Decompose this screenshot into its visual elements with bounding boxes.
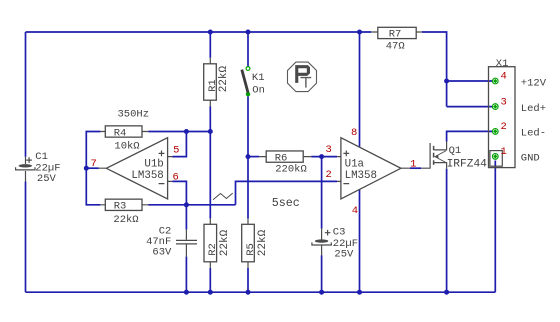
svg-text:7: 7 [91, 158, 97, 170]
svg-text:GND: GND [521, 153, 540, 165]
svg-text:22kΩ: 22kΩ [219, 229, 231, 256]
wire C3 bottom [321, 255, 323, 292]
svg-text:8: 8 [351, 127, 357, 139]
wire R2 bottom [209, 268, 211, 292]
wire C1 to bottom rail [25, 182, 27, 293]
resistor R5 [242, 219, 269, 268]
svg-text:22kΩ: 22kΩ [113, 214, 138, 226]
svg-text:C3: C3 [333, 227, 346, 239]
wire U1a pin8 [359, 32, 361, 147]
wire R7 to X1 corner [422, 32, 447, 107]
svg-text:X1: X1 [496, 58, 509, 70]
label Led- [521, 128, 546, 140]
pin 4 label [352, 205, 358, 217]
pin number X1-3 [501, 96, 507, 108]
svg-text:LM358: LM358 [345, 170, 377, 182]
label 5sec [272, 196, 300, 210]
resistor R1 [204, 58, 230, 106]
node K1 R6 [246, 154, 251, 159]
resistor R7 [371, 27, 422, 52]
svg-text:U1b: U1b [144, 158, 163, 170]
svg-text:1: 1 [501, 146, 507, 158]
svg-text:On: On [252, 84, 265, 96]
svg-text:25V: 25V [334, 249, 354, 261]
svg-text:63V: 63V [152, 246, 172, 258]
node rail R5 [246, 290, 251, 295]
svg-text:6: 6 [172, 171, 178, 183]
sawtooth icon [213, 193, 233, 200]
node top rail pin8 [357, 30, 362, 35]
resistor R2 [204, 219, 231, 268]
pin 5 label [173, 144, 179, 156]
svg-text:4: 4 [501, 71, 507, 83]
pin number X1-1 [501, 146, 507, 158]
svg-text:47Ω: 47Ω [386, 41, 405, 53]
node R6 C3 [319, 154, 324, 159]
svg-text:2: 2 [501, 121, 507, 133]
resistor R3 [100, 199, 148, 226]
wire GND down [494, 161, 496, 293]
pad X1-1 [492, 154, 498, 160]
pin 2 label [326, 169, 332, 181]
pad X1-3 [492, 104, 498, 110]
wire bottom rail [26, 291, 496, 293]
node +12V [444, 79, 449, 84]
svg-text:U1a: U1a [345, 158, 365, 170]
resistor R6 [259, 151, 311, 175]
wire R6 left [248, 156, 259, 158]
node U1b out [84, 166, 89, 171]
svg-text:R3: R3 [114, 201, 127, 213]
svg-text:5sec: 5sec [272, 196, 300, 210]
svg-text:3: 3 [326, 144, 332, 156]
svg-text:C1: C1 [35, 151, 48, 163]
svg-text:R2: R2 [207, 243, 219, 256]
wire R4 right [148, 131, 210, 133]
node rail Q1 [444, 290, 449, 295]
pin number X1-4 [501, 71, 507, 83]
wire R5 bottom [247, 268, 249, 292]
wire R3 right [148, 204, 235, 206]
resistor R4 [100, 126, 148, 153]
wire K1 top [247, 32, 249, 67]
svg-text:R7: R7 [389, 29, 402, 41]
wire U1a out to Q1 gate [410, 167, 421, 169]
node rail C2 [184, 290, 189, 295]
svg-text:IRFZ44: IRFZ44 [447, 158, 488, 170]
svg-text:R5: R5 [245, 243, 257, 256]
node rail pin4 [357, 290, 362, 295]
pad X1-4 [492, 78, 498, 84]
svg-text:Led+: Led+ [521, 103, 546, 115]
node rail C3 [319, 290, 324, 295]
svg-text:2: 2 [326, 169, 332, 181]
switch K1 [242, 67, 265, 97]
svg-text:K1: K1 [252, 72, 265, 84]
connector X1 [489, 58, 516, 168]
svg-text:3: 3 [501, 96, 507, 108]
svg-text:25V: 25V [37, 173, 57, 185]
wire top rail [26, 31, 372, 33]
node R3 C2 [184, 202, 189, 207]
wire pin6 [173, 181, 187, 204]
wire U1b out to R3 left [86, 168, 100, 205]
wire C2 top [185, 205, 187, 230]
svg-text:22kΩ: 22kΩ [218, 65, 230, 92]
pin number X1-2 [501, 121, 507, 133]
node rail R2 [208, 290, 213, 295]
wire U1a pin4 [359, 190, 361, 293]
svg-text:Q1: Q1 [449, 145, 462, 157]
pin 3 label [326, 144, 332, 156]
capacitor C1 [16, 151, 61, 185]
svg-text:4: 4 [352, 205, 358, 217]
wire C3 top [321, 157, 323, 229]
svg-text:LM358: LM358 [131, 170, 163, 182]
pin 1 label [410, 159, 416, 171]
wire R1 bottom [209, 106, 211, 131]
label Led+ [521, 103, 546, 115]
wire +12V branch [447, 80, 492, 82]
svg-text:10kΩ: 10kΩ [114, 141, 139, 153]
capacitor C3 [312, 227, 358, 261]
pad X1-2 [492, 129, 498, 135]
node top rail K1 [246, 30, 251, 35]
wire Led- to Q1 drain [447, 131, 492, 141]
svg-text:220kΩ: 220kΩ [275, 163, 307, 175]
svg-text:22kΩ: 22kΩ [257, 229, 269, 256]
svg-text:Led-: Led- [521, 128, 546, 140]
wire U1b out to R4 left [86, 132, 100, 169]
wire left rail to C1 [25, 32, 27, 157]
wire R1 top [209, 32, 211, 58]
op-amp U1b [99, 138, 173, 199]
wire R6 right to pin3 [311, 156, 337, 158]
op-amp U1a [337, 138, 410, 199]
svg-text:5: 5 [173, 144, 179, 156]
svg-text:R4: R4 [114, 127, 127, 139]
svg-text:350Hz: 350Hz [118, 109, 150, 121]
svg-text:+12V: +12V [521, 77, 547, 89]
wire U1b output [86, 167, 99, 169]
capacitor C2 [146, 225, 197, 258]
label GND [521, 153, 540, 165]
node top rail R1 [208, 30, 213, 35]
wire jog to U1a pin2 [236, 181, 338, 204]
wire Q1 source down [446, 169, 448, 293]
wire pin5 [173, 132, 187, 157]
pin 6 label [172, 171, 178, 183]
wire R5 column [247, 157, 249, 219]
transistor Q1 [421, 142, 487, 171]
wire K1 bottom to node [247, 96, 249, 156]
pin 8 label [351, 127, 357, 139]
label 350Hz [118, 109, 150, 121]
pin 7 label [91, 158, 97, 170]
label +12V [521, 77, 547, 89]
wire C2 bottom [185, 257, 187, 293]
wire Led+ branch [447, 106, 492, 108]
svg-text:1: 1 [410, 159, 416, 171]
wire R2 column [209, 132, 211, 219]
node R4 pin5 [184, 129, 189, 134]
node R4 R1 [208, 129, 213, 134]
logo octagon [288, 62, 317, 92]
